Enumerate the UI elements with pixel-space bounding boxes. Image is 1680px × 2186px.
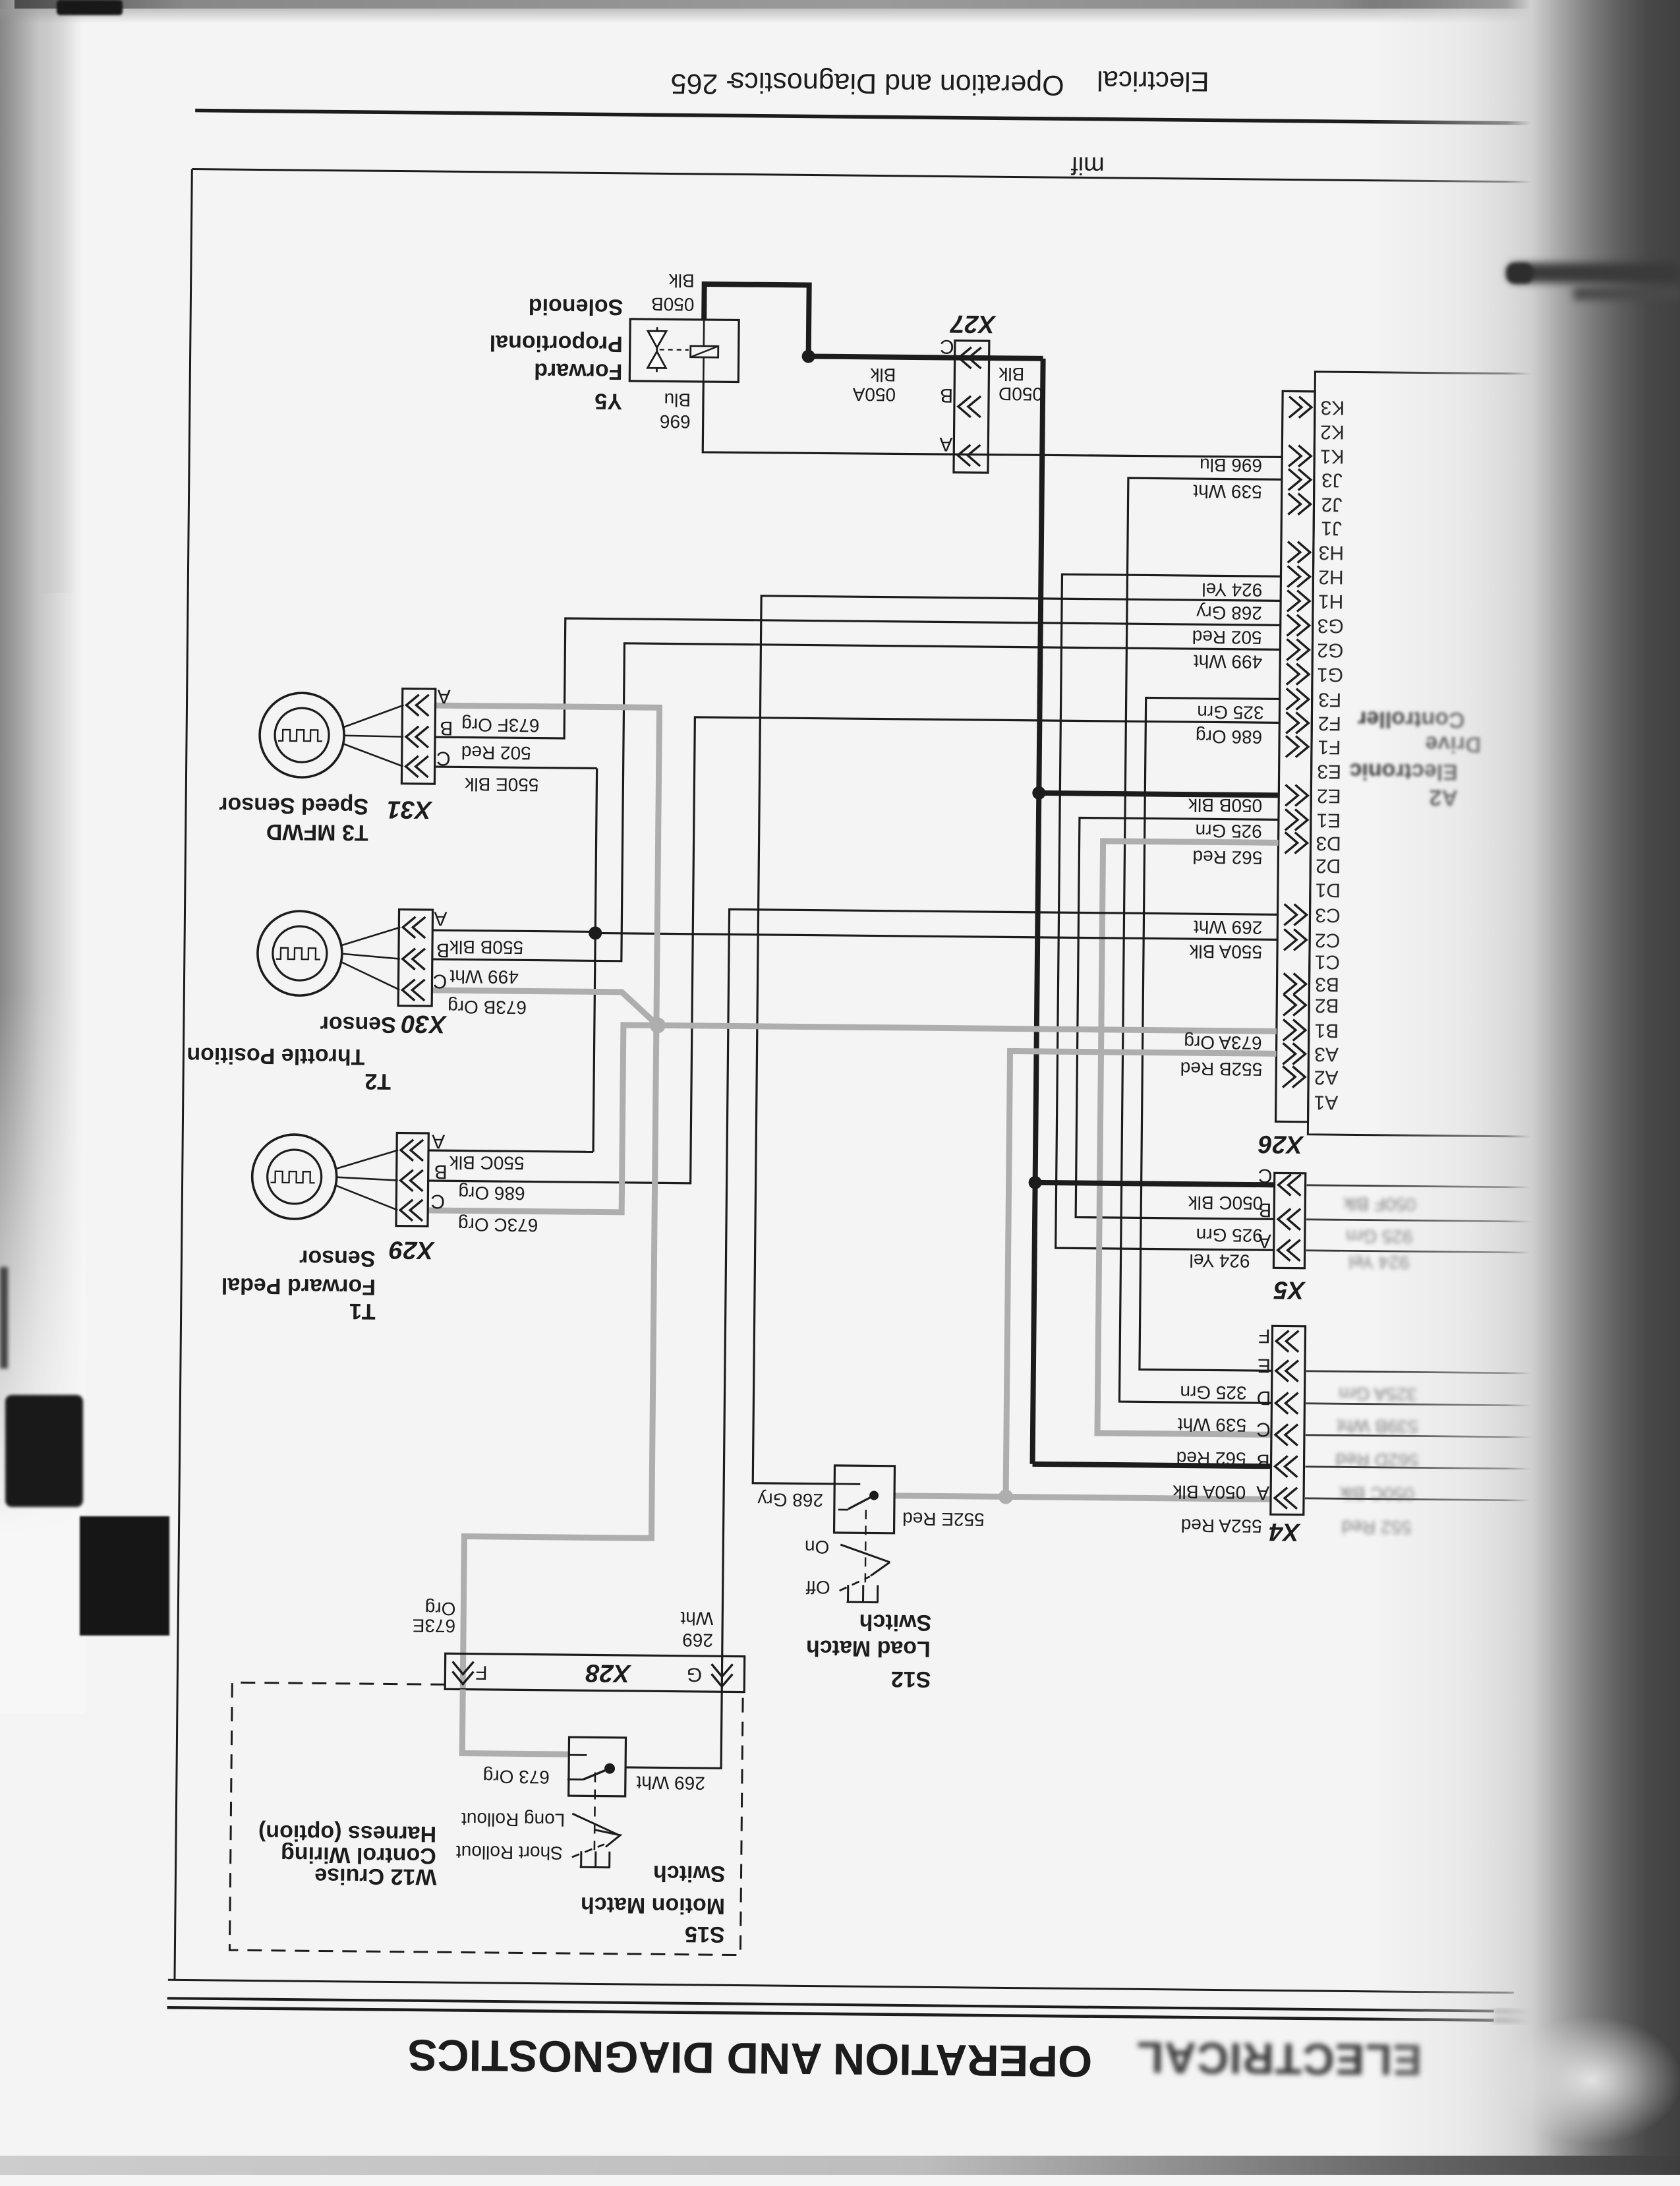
switch S12 box bbox=[834, 1465, 895, 1533]
scanner artifact: left gradient band bbox=[0, 0, 79, 593]
svg-text:X27: X27 bbox=[949, 310, 997, 338]
svg-text:562 Red: 562 Red bbox=[1192, 847, 1262, 868]
wire 050 trunk vertical (thick) bbox=[1033, 359, 1043, 1464]
svg-text:Forward Pedal: Forward Pedal bbox=[221, 1273, 376, 1299]
svg-text:552E Red: 552E Red bbox=[902, 1508, 985, 1529]
svg-text:325 Grn: 325 Grn bbox=[1180, 1382, 1246, 1403]
sensor T2 circle bbox=[257, 911, 342, 996]
wire 552E Red junction to S12 (gray) bbox=[894, 1496, 1006, 1497]
switch S15 blade bbox=[604, 1763, 615, 1774]
svg-text:050A Blk: 050A Blk bbox=[1172, 1481, 1246, 1502]
scanner artifact: bottom-right light wedge bbox=[1503, 2017, 1680, 2142]
svg-text:050C Blk: 050C Blk bbox=[1188, 1193, 1263, 1214]
switch S15 linkage dashed bbox=[594, 1772, 595, 1850]
svg-text:A: A bbox=[1256, 1482, 1269, 1504]
svg-text:Blk: Blk bbox=[998, 364, 1024, 384]
diode (bidirectional) in Y5 bbox=[656, 327, 658, 372]
svg-text:Throttle Position: Throttle Position bbox=[187, 1042, 364, 1069]
wire 673B Org X30-C to junction (gray) bbox=[432, 990, 658, 1025]
svg-text:Blk: Blk bbox=[869, 365, 896, 385]
junction dot 050 net bbox=[802, 349, 815, 363]
svg-text:J3: J3 bbox=[1321, 469, 1343, 490]
svg-text:925 Grn: 925 Grn bbox=[1195, 821, 1261, 842]
svg-text:K1: K1 bbox=[1320, 445, 1345, 467]
svg-text:Proportional: Proportional bbox=[490, 330, 623, 357]
svg-text:E1: E1 bbox=[1316, 809, 1341, 831]
svg-text:550E Blk: 550E Blk bbox=[464, 774, 538, 795]
svg-text:X28: X28 bbox=[585, 1659, 632, 1687]
sensor T3 circle bbox=[259, 693, 344, 778]
svg-text:550C Blk: 550C Blk bbox=[449, 1152, 525, 1173]
svg-text:550A Blk: 550A Blk bbox=[1188, 941, 1262, 962]
svg-text:Switch: Switch bbox=[859, 1609, 931, 1635]
switch S12 linkage dashed bbox=[865, 1510, 866, 1582]
svg-text:B: B bbox=[434, 1161, 448, 1183]
svg-text:H3: H3 bbox=[1318, 541, 1344, 563]
svg-text:C: C bbox=[1256, 1419, 1271, 1440]
wire 325 Grn F3 to X4-E bbox=[1140, 697, 1280, 1371]
svg-text:539 Wht: 539 Wht bbox=[1193, 481, 1262, 502]
svg-text:502 Red: 502 Red bbox=[461, 742, 531, 763]
svg-text:Y5: Y5 bbox=[594, 388, 622, 413]
junction dot 552 net (gray) bbox=[999, 1489, 1013, 1504]
svg-text:G2: G2 bbox=[1317, 639, 1343, 661]
wire 550B Blk X30-A to junction bbox=[432, 930, 595, 931]
svg-text:Sensor: Sensor bbox=[299, 1245, 376, 1271]
svg-text:673 Org: 673 Org bbox=[483, 1766, 550, 1787]
svg-text:673B Org: 673B Org bbox=[448, 997, 527, 1018]
wire 673 Org X28-F to S15 (gray) bbox=[462, 1690, 569, 1755]
svg-text:686 Org: 686 Org bbox=[458, 1183, 525, 1204]
junction dot 673 net (gray) bbox=[650, 1017, 666, 1033]
svg-text:X4: X4 bbox=[1269, 1518, 1301, 1545]
svg-text:696 Blu: 696 Blu bbox=[1200, 455, 1262, 476]
svg-text:OPERATION AND DIAGNOSTICS: OPERATION AND DIAGNOSTICS bbox=[407, 2030, 1092, 2086]
svg-text:Blk: Blk bbox=[668, 270, 695, 291]
svg-text:X26: X26 bbox=[1258, 1130, 1304, 1158]
svg-text:Long Rollout: Long Rollout bbox=[461, 1809, 565, 1831]
svg-text:X5: X5 bbox=[1273, 1276, 1306, 1303]
scanner artifact: right band dark streaks bbox=[1507, 263, 1680, 283]
svg-text:J1: J1 bbox=[1321, 517, 1342, 539]
svg-text:C: C bbox=[940, 336, 954, 357]
svg-text:K2: K2 bbox=[1320, 421, 1345, 442]
svg-text:A2: A2 bbox=[1314, 1066, 1339, 1088]
svg-text:Motion Match: Motion Match bbox=[581, 1892, 725, 1918]
connector X4 bbox=[1271, 1326, 1306, 1514]
wire 050B Blk E2 (thick) bbox=[1039, 793, 1279, 795]
svg-text:562 Red: 562 Red bbox=[1176, 1448, 1246, 1469]
border frame bbox=[175, 169, 192, 1980]
scanner artifact: top-left black blob bbox=[57, 0, 123, 15]
svg-text:673F Org: 673F Org bbox=[461, 715, 540, 736]
svg-text:H1: H1 bbox=[1318, 590, 1344, 612]
svg-text:A: A bbox=[434, 908, 447, 930]
wire 502 Red G3 to X31-B bbox=[435, 617, 1281, 745]
scanner artifact: top bar bbox=[14, 0, 1680, 9]
svg-text:924 Yel: 924 Yel bbox=[1189, 1251, 1250, 1272]
sensor T1 circle bbox=[252, 1134, 337, 1219]
wire stubs X5 right side bbox=[1307, 1185, 1594, 1188]
wire 269 Wht C3 to X28-G bbox=[722, 909, 1277, 1697]
scanner artifact: bottom strip bbox=[0, 2156, 1680, 2175]
svg-text:A1: A1 bbox=[1314, 1091, 1338, 1113]
svg-text:Org: Org bbox=[425, 1598, 456, 1618]
svg-text:E3: E3 bbox=[1317, 760, 1341, 782]
svg-text:Harness (option): Harness (option) bbox=[258, 1820, 436, 1847]
switch S12 blade bbox=[834, 1483, 860, 1485]
junction dot 550 net bbox=[589, 926, 602, 939]
svg-text:Electrical: Electrical bbox=[1097, 65, 1209, 98]
svg-text:X29: X29 bbox=[389, 1235, 435, 1264]
svg-text:A: A bbox=[432, 1131, 445, 1152]
svg-text:539 Wht: 539 Wht bbox=[1177, 1414, 1246, 1435]
svg-text:X30: X30 bbox=[401, 1010, 448, 1038]
svg-text:E2: E2 bbox=[1317, 784, 1341, 806]
svg-text:F1: F1 bbox=[1318, 736, 1341, 757]
wire 673A Org B1 from 673 junction (gray) bbox=[658, 1025, 1277, 1031]
svg-text:925 Grn: 925 Grn bbox=[1196, 1225, 1263, 1246]
harness W12 dashed box bbox=[229, 1682, 743, 1955]
rule top bbox=[195, 111, 1631, 125]
svg-text:On: On bbox=[805, 1537, 830, 1557]
svg-text:C2: C2 bbox=[1315, 929, 1341, 951]
svg-text:C: C bbox=[430, 1191, 445, 1212]
svg-text:Solenoid: Solenoid bbox=[529, 293, 623, 319]
wire 539 Wht J3 to X4-D bbox=[1119, 478, 1281, 1403]
svg-text:B1: B1 bbox=[1314, 1019, 1339, 1041]
svg-text:050B: 050B bbox=[651, 294, 695, 315]
svg-text:G3: G3 bbox=[1318, 614, 1344, 636]
svg-text:550B Blk: 550B Blk bbox=[449, 937, 523, 958]
svg-text:F: F bbox=[1258, 1325, 1271, 1347]
coil symbol Y5 bbox=[660, 349, 689, 351]
svg-text:J2: J2 bbox=[1321, 493, 1343, 515]
svg-text:050D: 050D bbox=[999, 384, 1043, 405]
svg-text:Switch: Switch bbox=[653, 1860, 726, 1886]
svg-text:268 Gry: 268 Gry bbox=[1196, 603, 1262, 624]
wire 696 Blu Y5 to X27-A bbox=[703, 382, 1283, 458]
wire 268 Gry H1 to S12 bbox=[753, 596, 1281, 1489]
svg-text:F: F bbox=[475, 1661, 488, 1683]
svg-text:B2: B2 bbox=[1315, 994, 1339, 1016]
switch S15 box bbox=[569, 1737, 626, 1796]
svg-text:- 265: - 265 bbox=[670, 67, 735, 100]
connector X31 bbox=[401, 689, 435, 784]
connector X30 bbox=[398, 910, 432, 1006]
svg-text:Short Rollout: Short Rollout bbox=[456, 1842, 563, 1864]
svg-text:C: C bbox=[433, 970, 448, 992]
connector X5 bbox=[1273, 1173, 1305, 1268]
connector X26 bbox=[1276, 391, 1316, 1121]
svg-text:C1: C1 bbox=[1315, 951, 1341, 972]
svg-text:D: D bbox=[1257, 1387, 1271, 1409]
svg-text:B3: B3 bbox=[1315, 973, 1339, 995]
svg-text:Wht: Wht bbox=[680, 1608, 713, 1628]
svg-text:673C Org: 673C Org bbox=[458, 1214, 538, 1235]
rule bottom double bbox=[167, 1998, 1494, 2011]
svg-text:D2: D2 bbox=[1316, 854, 1341, 876]
svg-text:C3: C3 bbox=[1315, 904, 1341, 926]
solenoid Y5 box bbox=[629, 319, 739, 382]
wire 550C Blk X29-A to 550 vertical bbox=[428, 1150, 593, 1152]
connector X28 bbox=[445, 1653, 744, 1692]
wire 499 Wht G2 to X30-B bbox=[432, 641, 1281, 967]
svg-text:S15: S15 bbox=[685, 1922, 725, 1947]
svg-text:A: A bbox=[438, 686, 451, 707]
svg-text:268 Gry: 268 Gry bbox=[757, 1489, 823, 1510]
wire 673F Org X31-A down to junction (gray) bbox=[432, 705, 660, 1025]
connector X27 bbox=[954, 341, 989, 473]
svg-text:D3: D3 bbox=[1316, 832, 1341, 854]
svg-text:G: G bbox=[687, 1663, 703, 1685]
svg-text:E: E bbox=[1258, 1355, 1271, 1376]
svg-text:Speed Sensor: Speed Sensor bbox=[219, 792, 368, 819]
svg-text:G1: G1 bbox=[1317, 663, 1343, 685]
svg-text:B: B bbox=[440, 717, 453, 739]
wire 050B Blk Y5 to X27 (thick) bbox=[704, 284, 1044, 359]
svg-text:499 Wht: 499 Wht bbox=[449, 966, 519, 988]
wire 552B Red A3 to 552 junction (gray) bbox=[1006, 1051, 1276, 1499]
svg-text:050B Blk: 050B Blk bbox=[1188, 795, 1262, 816]
svg-text:269: 269 bbox=[682, 1630, 713, 1650]
wire 550E Blk X31-C down to 550 junction bbox=[435, 767, 597, 768]
svg-text:552A Red: 552A Red bbox=[1180, 1515, 1261, 1536]
svg-text:499 Wht: 499 Wht bbox=[1194, 651, 1263, 672]
svg-text:D1: D1 bbox=[1316, 879, 1341, 901]
svg-text:Forward: Forward bbox=[534, 358, 622, 384]
controller A2 box bbox=[1308, 372, 1608, 1137]
scanner artifact: right gutter band bbox=[1371, 0, 1680, 2175]
pins X26 bbox=[1289, 396, 1312, 417]
svg-text:mif: mif bbox=[1070, 151, 1104, 179]
wire 050A Blk X4-B (thick) bbox=[1033, 1464, 1271, 1466]
svg-text:B: B bbox=[436, 939, 449, 961]
svg-text:Load Match: Load Match bbox=[806, 1636, 931, 1662]
wire 550 net vertical bbox=[593, 768, 597, 1152]
svg-text:325 Grn: 325 Grn bbox=[1197, 702, 1263, 723]
wire 673E Org junction down to X28-F (gray) bbox=[463, 1024, 656, 1692]
connector X29 bbox=[396, 1133, 428, 1226]
wire 562 Red D3 to X4-C (gray) bbox=[1097, 841, 1279, 1435]
svg-text:502 Red: 502 Red bbox=[1192, 627, 1262, 648]
wire 269 Wht X28-G to S15 bbox=[625, 1691, 722, 1768]
svg-text:K3: K3 bbox=[1320, 396, 1345, 418]
wire 925 Grn E1 to X5-B bbox=[1076, 817, 1279, 1219]
scanner artifact: left marks bbox=[0, 1267, 8, 1369]
svg-text:Operation and Diagnostics: Operation and Diagnostics bbox=[730, 66, 1064, 101]
svg-text:Sensor: Sensor bbox=[320, 1011, 396, 1037]
svg-text:269 Wht: 269 Wht bbox=[636, 1773, 705, 1794]
svg-text:924 Yel: 924 Yel bbox=[1202, 579, 1262, 601]
wire 673C Org junction to X29-C (gray) bbox=[428, 1023, 658, 1212]
svg-text:686 Org: 686 Org bbox=[1196, 726, 1262, 748]
svg-text:Blu: Blu bbox=[664, 390, 691, 410]
svg-text:A3: A3 bbox=[1314, 1043, 1339, 1065]
svg-text:A: A bbox=[939, 433, 952, 455]
svg-text:F2: F2 bbox=[1318, 712, 1341, 734]
wire 686 Org F2 to X29-B bbox=[428, 715, 1280, 1189]
wire 924 Yel H2 to X5-A bbox=[1056, 574, 1281, 1250]
svg-text:Off: Off bbox=[806, 1577, 830, 1597]
wire 050C Blk X5-C (thick) bbox=[1035, 1183, 1275, 1185]
svg-text:S12: S12 bbox=[891, 1667, 931, 1692]
wire stubs X4 right side bbox=[1306, 1371, 1592, 1374]
svg-text:H2: H2 bbox=[1318, 566, 1344, 587]
svg-text:T2: T2 bbox=[364, 1069, 391, 1094]
svg-text:F3: F3 bbox=[1318, 688, 1341, 710]
svg-text:696: 696 bbox=[660, 411, 691, 432]
svg-text:552B Red: 552B Red bbox=[1180, 1058, 1263, 1079]
svg-text:T3 MFWD: T3 MFWD bbox=[266, 819, 368, 845]
svg-text:B: B bbox=[940, 384, 953, 406]
svg-text:X31: X31 bbox=[387, 795, 433, 823]
wire 550A Blk C2 to 550 junction bbox=[595, 933, 1277, 939]
svg-text:T1: T1 bbox=[349, 1299, 376, 1324]
svg-text:050A: 050A bbox=[852, 384, 896, 405]
S15 detent bbox=[580, 1851, 610, 1867]
svg-text:269 Wht: 269 Wht bbox=[1194, 917, 1263, 938]
